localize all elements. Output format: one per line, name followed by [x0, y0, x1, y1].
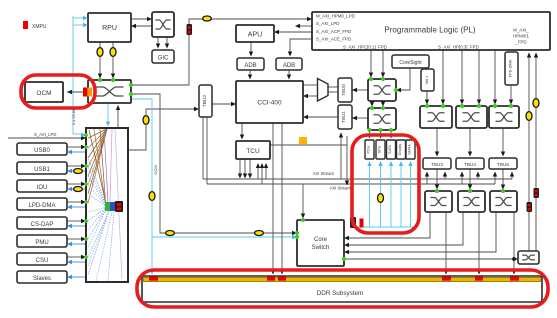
- wire fan blue to y230: [88, 207, 107, 230]
- wire ADB1 to CCI: [249, 70, 251, 77]
- wire USB0 fwd: [67, 146, 82, 148]
- wire LPD-DMA fwd: [67, 201, 82, 203]
- wire CCI to mux upper: [303, 84, 317, 86]
- svg-text:FPD-DMA: FPD-DMA: [509, 59, 513, 77]
- wire fan pink 2: [115, 129, 122, 279]
- wire fan brown to y167: [88, 129, 107, 167]
- SATA strip: [387, 140, 396, 159]
- svg-text:CoreSight: CoreSight: [399, 60, 422, 66]
- cyan arrowheads up into PCIe strips: [367, 161, 412, 166]
- XMPU red square OCM switch: [83, 88, 87, 97]
- svg-text:GPU: GPU: [378, 145, 382, 153]
- wire fan pink 1: [110, 129, 112, 202]
- wire AXI stream to Core Switch top: [302, 184, 304, 216]
- wire small switch feed stub: [514, 258, 515, 260]
- arrowheads up-pointing black: [116, 53, 538, 177]
- wire fan brown to y138: [88, 129, 107, 138]
- wire TCU drop b: [244, 159, 246, 176]
- cyan arrowhead into Core Switch: [292, 235, 297, 239]
- wire fan brown to y176: [88, 129, 107, 176]
- wire sw-B to SATA: [390, 130, 392, 136]
- wire sw-A to sw-B a: [371, 101, 373, 104]
- wire CCI to DDR b: [281, 123, 283, 272]
- wire fan blue to y194: [88, 194, 107, 207]
- wire S1 to TBU3: [436, 128, 438, 154]
- wire fan blue to y167: [88, 167, 107, 207]
- switch S3: [489, 106, 519, 128]
- svg-text:2 x 64 bit: 2 x 64 bit: [71, 108, 76, 125]
- XPPU yellow square near TCU: [299, 137, 307, 144]
- wire fan blue to y158: [88, 158, 107, 207]
- wire USB0 rtn cyan: [71, 151, 86, 153]
- svg-text:TBU0: TBU0: [341, 84, 346, 96]
- wire CoreSight to sw-A: [400, 68, 410, 90]
- wire R5-switch to GIC a: [157, 37, 159, 46]
- wire fan blue bottom a: [96, 212, 112, 281]
- ADB right: [276, 58, 302, 70]
- CCI-400: [236, 81, 303, 123]
- wire fan brown bundle c: [100, 129, 106, 208]
- wire R1 to Core Switch: [348, 212, 430, 238]
- Virt box: [421, 69, 434, 91]
- wire R3 to DDR: [513, 212, 515, 272]
- wire cyan riser mid to DDR: [131, 99, 152, 272]
- wire virt box to S1: [426, 90, 428, 102]
- wire OCM net: OCM-switch right to Core Switch: [131, 94, 293, 233]
- wire RPU down to OCM-switch a: [99, 42, 101, 76]
- wire HP2 from PL to S2: [478, 50, 480, 102]
- wire cyan S_AXI_LPD into LPD switch: [73, 133, 82, 135]
- wire APU to ADB1: [250, 42, 252, 54]
- wire R3 to Core Switch: [348, 212, 496, 252]
- wire IOU rtn cyan: [71, 188, 86, 190]
- svg-text:TBU5: TBU5: [497, 162, 509, 167]
- OCM box: [25, 82, 63, 102]
- switch B: [368, 108, 396, 130]
- node yellow oval markers: [74, 16, 539, 236]
- Slaves: [17, 271, 67, 283]
- wire cyan PCIe drop 3: [390, 162, 392, 227]
- wire fan blue low y275: [88, 211, 109, 275]
- svg-text:XMPU: XMPU: [32, 24, 47, 30]
- wire CSU rtn cyan: [71, 261, 86, 263]
- FPD-DMA box: [505, 52, 518, 85]
- XMPU block in LPD switch blue: [110, 202, 115, 211]
- wire fan blue to y221: [88, 207, 107, 221]
- wire cyan PCIe drop 1: [369, 162, 371, 227]
- wire LPD-DMA rtn cyan: [71, 206, 86, 208]
- wire TBU4 to R2: [469, 169, 471, 187]
- wire small switch up to PL b: [535, 53, 537, 251]
- svg-text:S_AXI_LPD: S_AXI_LPD: [34, 132, 56, 137]
- svg-text:Core: Core: [314, 237, 328, 243]
- TBU2: [199, 85, 212, 117]
- cyan arrowheads into RPU: [83, 16, 88, 27]
- XMPU marker near PL feed: [187, 24, 193, 35]
- switch R2: [458, 191, 485, 212]
- TBU5: [489, 158, 517, 169]
- svg-text:GDMA: GDMA: [408, 144, 412, 155]
- wire CCI return stub a: [257, 165, 259, 179]
- wire S2 to TBU4: [469, 128, 471, 154]
- wire fan brown bundle b: [94, 129, 106, 206]
- svg-text:GIC: GIC: [158, 56, 169, 62]
- wire HPC1 from PL to sw-A: [382, 50, 384, 75]
- svg-text:Slaves: Slaves: [33, 276, 51, 282]
- svg-text:TBU2: TBU2: [202, 95, 208, 108]
- arrowheads down-pointing black: [98, 44, 516, 275]
- wire RPU to R5-switch fwd: [131, 18, 148, 20]
- wire TBU5 return stubs: [494, 173, 496, 184]
- svg-text:USB0: USB0: [34, 148, 50, 154]
- svg-text:APU: APU: [248, 32, 262, 39]
- wire cyan into RPU pin2: [73, 24, 84, 26]
- XPPU orange square OCM switch: [87, 88, 92, 97]
- wire sw-B to PCIe: [369, 130, 371, 136]
- wire HP3 from PL to S3: [494, 50, 496, 102]
- wire fan blue to y185: [88, 185, 107, 207]
- wire S3 to TBU5: [502, 128, 504, 154]
- svg-text:TBU1: TBU1: [341, 111, 346, 123]
- GDMA strip: [406, 140, 415, 159]
- wire RPU down to OCM-switch b: [112, 42, 114, 76]
- USB1: [17, 162, 67, 174]
- CS-DAP: [17, 217, 67, 229]
- wire cyan PCIe drop 4: [400, 162, 402, 227]
- GPU strip: [376, 140, 385, 159]
- wire sw-A to sw-B b: [382, 101, 384, 104]
- wire fan brown to y185: [88, 129, 107, 185]
- svg-text:S_AXI_ACE_FPD: S_AXI_ACE_FPD: [316, 36, 351, 41]
- CSU: [17, 253, 67, 265]
- wire fan blue to y248: [88, 207, 107, 248]
- svg-text:S_AXI_HPC[0:1]_FPD: S_AXI_HPC[0:1]_FPD: [343, 45, 387, 50]
- svg-text:M_AXI_HPM0_LPD: M_AXI_HPM0_LPD: [316, 14, 355, 19]
- wire AXI stream bus lower: [207, 183, 495, 185]
- wire Slaves rtn cyan: [71, 276, 86, 278]
- svg-text:CS-DAP: CS-DAP: [31, 222, 54, 228]
- svg-text:TBU3: TBU3: [431, 162, 443, 167]
- wire R2 to Core Switch: [348, 212, 463, 245]
- wire fan blue to y176: [88, 176, 107, 207]
- wire TBU4 return stubs: [461, 173, 463, 184]
- wire TBU1 bottom riser a: [340, 133, 342, 179]
- highlight ellipse OCM: [21, 75, 95, 108]
- highlight round-rect PCIe group: [352, 135, 419, 233]
- wire TBU3 return stubs: [426, 173, 428, 184]
- DDR yellow bar: [144, 277, 541, 281]
- PMU: [17, 235, 67, 247]
- switch S1: [420, 106, 452, 128]
- svg-text:USB1: USB1: [34, 167, 50, 173]
- svg-text:CSU: CSU: [36, 258, 49, 264]
- wire fan brown to y158: [88, 129, 107, 158]
- wire OCM-switch to OCM box: [67, 91, 84, 93]
- Core Switch: [297, 220, 344, 266]
- wire USB1 fwd: [67, 165, 82, 167]
- switch A: [368, 79, 396, 101]
- DisplayPort strip: [397, 140, 406, 159]
- switch R3: [490, 191, 517, 212]
- wire TCU drop c: [249, 159, 251, 176]
- OCM switch: [88, 80, 131, 103]
- wire mux to TBU0 b: [328, 91, 338, 93]
- wire USB1 rtn cyan: [71, 170, 86, 172]
- svg-text:OCM: OCM: [36, 90, 51, 97]
- svg-text:IOU: IOU: [37, 185, 48, 191]
- wire TBU1 to CCI: [307, 116, 338, 118]
- ADB left: [237, 58, 264, 70]
- TBU4: [456, 158, 484, 169]
- svg-text:LPD-DMA: LPD-DMA: [28, 203, 55, 209]
- wire CCI to DDR a: [272, 123, 274, 272]
- svg-text:ADB: ADB: [283, 63, 295, 69]
- wire IOU fwd: [67, 183, 82, 185]
- R5 switch: [152, 12, 174, 37]
- wire cyan riser top-left: [72, 16, 74, 134]
- legend XMPU: [23, 21, 28, 29]
- cyan arrowhead into LPD switch top: [106, 122, 110, 127]
- mux trapezoid: [318, 79, 329, 102]
- wire HP0 from PL to S1: [442, 50, 444, 102]
- TBU0: [338, 78, 352, 102]
- wire cyan PCIe drop 5: [410, 162, 412, 227]
- wire fan violet: [104, 129, 108, 202]
- wire fan brown to y203: [88, 129, 107, 203]
- XMPU marker right line b: [527, 202, 533, 212]
- wire TCU right run: [270, 144, 347, 146]
- svg-text:ADB: ADB: [244, 63, 256, 69]
- wire TBU3 to R1: [436, 169, 438, 187]
- wire HPC0 from PL to sw-A: [370, 50, 372, 75]
- wire fan blue bottom b: [108, 212, 114, 281]
- wire R1 to DDR: [445, 212, 447, 272]
- junction dot small-switch feed: [512, 257, 516, 261]
- cyan arrowhead into DDR: [150, 270, 154, 275]
- wire S_AXI_ACE_FPD PL to ADB2: [290, 39, 312, 54]
- svg-text:_FPD: _FPD: [514, 40, 526, 45]
- svg-text:AXI Stream: AXI Stream: [330, 186, 352, 191]
- wire cyan PCIe bottom run: [357, 226, 415, 228]
- wire fan blue low y266: [88, 211, 109, 266]
- wire R2 to DDR: [478, 212, 480, 272]
- wire ADB2 to CCI: [288, 70, 290, 77]
- svg-text:AXI Stream: AXI Stream: [313, 171, 335, 176]
- Programmable Logic PL: [312, 12, 550, 50]
- svg-text:PMU: PMU: [35, 240, 48, 246]
- wire S_AXI_LPD label line: [8, 137, 82, 139]
- wire CS-DAP rtn cyan: [71, 225, 86, 227]
- wire LPD switch to TBU2: [128, 109, 195, 150]
- node green connection dots: [98, 78, 102, 82]
- svg-text:Display: Display: [398, 144, 402, 155]
- wire TBU1 bottom riser b: [346, 136, 348, 182]
- wire fan brown to y194: [88, 129, 107, 194]
- wire CCI return stub c: [265, 165, 267, 179]
- wire CSU fwd: [67, 256, 82, 258]
- wire OCM-switch down-link cyan to LPD switch: [107, 103, 109, 124]
- PCIe strip: [365, 140, 374, 159]
- wire sw-B to TBU1: [356, 117, 368, 119]
- wire TBU2 drop b: [206, 117, 208, 184]
- XMPU red stub PCIe group: [360, 219, 364, 228]
- svg-text:OCM: OCM: [153, 165, 158, 174]
- switch R1: [425, 191, 452, 212]
- wire S_AXI_ACP_FPD PL to APU: [278, 31, 312, 33]
- groups appended below: [8, 16, 536, 272]
- TBU1: [338, 105, 352, 129]
- wire TBU2 drop a: [202, 117, 204, 179]
- wire mux to TBU0 a: [328, 86, 338, 88]
- GIC: [152, 50, 174, 63]
- LPD main switch tall box: [86, 128, 128, 282]
- cyan arrowhead S_AXI_LPD: [81, 133, 86, 137]
- wire AXI stream bus upper: [203, 178, 512, 180]
- svg-text:HPM0/1: HPM0/1: [513, 34, 529, 39]
- svg-text:CCI-400: CCI-400: [257, 100, 282, 107]
- wire PMU fwd: [67, 238, 82, 240]
- XMPU block in LPD switch green: [105, 202, 110, 211]
- wire TBU2 to CCI: [212, 103, 232, 105]
- svg-text:TCU: TCU: [246, 148, 260, 155]
- svg-text:DDR Subsystem: DDR Subsystem: [317, 290, 364, 297]
- cyan arrowheads into left boxes: [67, 150, 72, 279]
- wire TCU drop a: [239, 159, 241, 176]
- wire cyan into RPU pin1: [73, 17, 84, 19]
- wire cyan branch to Core Switch: [152, 236, 293, 238]
- XMPU marker PCIe group corner: [350, 217, 356, 228]
- arrowheads right-pointing black: [81, 17, 518, 261]
- DDR Subsystem box: [142, 276, 542, 302]
- svg-text:Virt 2: Virt 2: [425, 76, 429, 85]
- TCU: [236, 141, 270, 159]
- wire CCI return stub b: [261, 165, 263, 184]
- svg-text:Programmable Logic (PL): Programmable Logic (PL): [384, 26, 475, 35]
- wire mux to CCI lower: [307, 95, 317, 97]
- highlight round-rect DDR: [137, 270, 548, 307]
- CoreSight: [392, 55, 429, 68]
- svg-text:PCIe: PCIe: [367, 146, 371, 154]
- wire HP1 from PL to S2: [461, 50, 463, 102]
- wire sw-B to GPU: [380, 130, 382, 136]
- svg-text:Switch: Switch: [312, 245, 330, 251]
- APU U-APU: [236, 25, 274, 42]
- wire S_AXI_LPD PL stub: [299, 25, 312, 27]
- wire TBU5 to R3: [502, 169, 504, 187]
- USB0: [17, 143, 67, 155]
- svg-text:S_AXI_HP[0:3]_FPD: S_AXI_HP[0:3]_FPD: [438, 45, 479, 50]
- wire CS-DAP fwd: [67, 220, 82, 222]
- switch S2: [456, 106, 487, 128]
- svg-text:M_AXI_: M_AXI_: [513, 28, 529, 33]
- svg-text:TBU4: TBU4: [464, 162, 476, 167]
- wire FPD-DMA to S3: [510, 85, 512, 102]
- wire small switch up to PL a: [528, 53, 530, 251]
- IOU: [17, 180, 67, 192]
- wire fan blue low y257: [88, 211, 109, 257]
- XMPU block in LPD switch dark/red: [115, 201, 123, 212]
- wire CCI to TCU: [241, 123, 243, 137]
- arrowheads left-pointing black: [67, 24, 401, 254]
- LPD-DMA: [17, 198, 67, 210]
- wire M_AXI_HPM0_LPD from PL to OCM-switch: [133, 19, 308, 85]
- svg-text:S_AXI_ACP_FPD: S_AXI_ACP_FPD: [316, 29, 351, 34]
- wire fan blue to y212: [88, 207, 107, 212]
- wire R5-switch to RPU rtn: [135, 25, 152, 27]
- svg-text:RPU: RPU: [102, 25, 117, 32]
- RPU U-RPU: [88, 13, 131, 42]
- XMPU marker right line a: [534, 188, 540, 198]
- DDR XMPU red marks: [149, 277, 158, 281]
- wire sw-A to TBU0: [356, 89, 368, 91]
- wire fan brown bundle a: [89, 130, 106, 204]
- wire LPD switch up-link to OCM-switch: [117, 107, 119, 128]
- small switch SW4: [518, 251, 539, 264]
- wire fan brown to y148: [88, 129, 107, 148]
- wire Core Switch to small switch: [344, 258, 514, 260]
- TBU3: [423, 158, 451, 169]
- wire cyan PCIe drop 2: [380, 162, 382, 227]
- wire PMU rtn cyan: [71, 243, 86, 245]
- svg-text:S_AXI_LPD: S_AXI_LPD: [316, 21, 339, 26]
- svg-text:SATA: SATA: [388, 144, 392, 153]
- wire fan blue to y239: [88, 207, 107, 239]
- wire R5-switch to GIC b: [166, 37, 168, 46]
